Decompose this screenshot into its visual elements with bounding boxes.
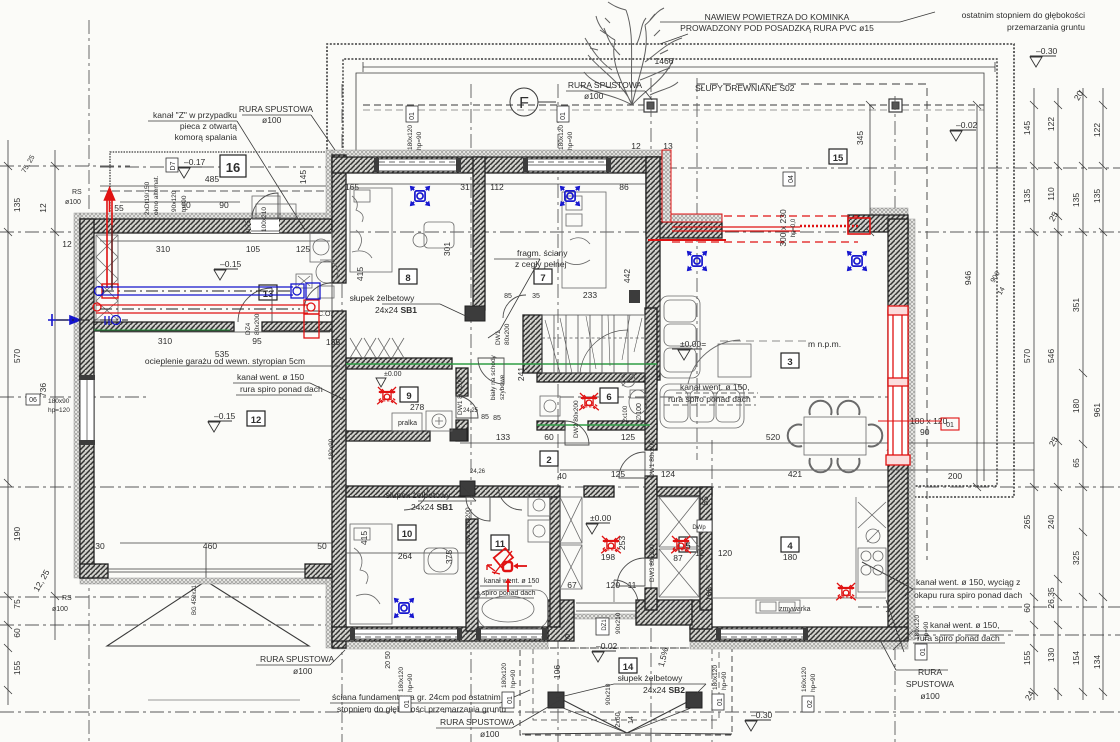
svg-text:112: 112 xyxy=(490,182,504,192)
svg-text:01: 01 xyxy=(409,112,416,120)
svg-text:35: 35 xyxy=(532,293,540,300)
svg-text:180x120: 180x120 xyxy=(914,615,921,640)
svg-text:słupek żelbetowy: słupek żelbetowy xyxy=(350,293,415,303)
svg-text:100x210: 100x210 xyxy=(261,207,268,232)
svg-text:–0.30: –0.30 xyxy=(1036,46,1058,56)
svg-text:165: 165 xyxy=(345,182,359,192)
svg-text:198: 198 xyxy=(601,552,615,562)
svg-text:180: 180 xyxy=(783,552,797,562)
svg-text:301: 301 xyxy=(442,242,452,256)
svg-text:ø100: ø100 xyxy=(262,115,282,125)
svg-text:421: 421 xyxy=(788,469,802,479)
svg-text:264: 264 xyxy=(398,551,412,561)
svg-text:180: 180 xyxy=(1071,399,1081,413)
svg-text:kanał went. ø 150: kanał went. ø 150 xyxy=(237,372,304,382)
svg-text:01: 01 xyxy=(920,648,927,656)
svg-text:145: 145 xyxy=(1022,121,1032,135)
svg-text:546: 546 xyxy=(1046,349,1056,363)
svg-text:fragm. ściany: fragm. ściany xyxy=(517,248,568,258)
svg-text:hp=90: hp=90 xyxy=(416,131,423,150)
svg-text:67: 67 xyxy=(567,580,577,590)
svg-text:20 50: 20 50 xyxy=(385,651,392,669)
svg-text:180x120: 180x120 xyxy=(398,667,405,692)
svg-text:3: 3 xyxy=(787,357,792,368)
svg-text:kanał went. ø 150, wyciąg z: kanał went. ø 150, wyciąg z xyxy=(916,577,1020,587)
svg-text:10: 10 xyxy=(402,529,413,540)
svg-text:75: 75 xyxy=(12,599,22,609)
svg-text:DW2 80x200: DW2 80x200 xyxy=(573,400,580,438)
svg-text:SŁUPY DREWNIANE S02: SŁUPY DREWNIANE S02 xyxy=(695,83,795,93)
svg-text:106: 106 xyxy=(552,665,562,679)
svg-text:65: 65 xyxy=(700,496,710,506)
svg-text:30: 30 xyxy=(95,541,105,551)
svg-text:460: 460 xyxy=(203,541,217,551)
svg-text:pieca z otwartą: pieca z otwartą xyxy=(180,121,237,131)
svg-text:01: 01 xyxy=(404,700,411,708)
svg-text:01: 01 xyxy=(507,696,514,704)
svg-text:180x120: 180x120 xyxy=(407,125,414,150)
svg-text:4: 4 xyxy=(787,541,793,552)
svg-text:241: 241 xyxy=(516,367,526,381)
svg-text:DW1: DW1 xyxy=(495,330,502,345)
svg-text:pralka: pralka xyxy=(398,420,417,427)
svg-text:961: 961 xyxy=(1092,403,1102,417)
svg-text:180x120: 180x120 xyxy=(501,663,508,688)
svg-text:95: 95 xyxy=(252,336,262,346)
svg-text:02: 02 xyxy=(807,700,814,708)
svg-text:85: 85 xyxy=(481,414,489,421)
svg-text:1466: 1466 xyxy=(655,56,674,66)
svg-text:40: 40 xyxy=(557,471,567,481)
svg-text:ø100: ø100 xyxy=(480,729,500,739)
svg-text:6: 6 xyxy=(606,392,611,403)
svg-text:8: 8 xyxy=(405,273,410,284)
svg-text:2x60: 2x60 xyxy=(615,712,622,727)
svg-text:kanał went. ø 150,: kanał went. ø 150, xyxy=(680,382,749,392)
svg-text:2xDt19/150: 2xDt19/150 xyxy=(144,181,151,215)
svg-text:słupek żelbetowy: słupek żelbetowy xyxy=(386,490,451,500)
svg-text:60: 60 xyxy=(544,432,554,442)
svg-text:570: 570 xyxy=(12,349,22,363)
svg-text:125: 125 xyxy=(296,244,310,254)
svg-text:hp=90: hp=90 xyxy=(810,673,817,692)
svg-text:60: 60 xyxy=(12,628,22,638)
svg-text:ocieplenie garażu od wewn. sty: ocieplenie garażu od wewn. styropian 5cm xyxy=(145,356,305,366)
svg-text:135: 135 xyxy=(1092,189,1102,203)
svg-text:415: 415 xyxy=(355,267,365,281)
svg-text:ø100: ø100 xyxy=(920,691,940,701)
svg-text:415: 415 xyxy=(359,531,369,545)
svg-text:135: 135 xyxy=(12,198,22,212)
svg-text:80x200: 80x200 xyxy=(254,313,261,335)
svg-text:2x100: 2x100 xyxy=(623,405,629,422)
svg-text:stopniem do głębokości przemar: stopniem do głębokości przemarzania grun… xyxy=(337,704,506,714)
svg-text:okapu rura spiro ponad dach: okapu rura spiro ponad dach xyxy=(914,590,1022,600)
svg-text:2: 2 xyxy=(546,455,551,466)
svg-text:300 x 230: 300 x 230 xyxy=(778,209,788,247)
svg-text:180x120: 180x120 xyxy=(558,125,565,150)
svg-text:14: 14 xyxy=(623,662,634,673)
svg-text:rura spiro ponad dach: rura spiro ponad dach xyxy=(240,384,323,394)
svg-text:0,75: 0,75 xyxy=(246,220,252,232)
svg-text:–0.15: –0.15 xyxy=(220,259,242,269)
svg-text:szybowe: szybowe xyxy=(499,374,506,400)
svg-text:RURA SPUSTOWA: RURA SPUSTOWA xyxy=(440,717,514,727)
svg-text:01: 01 xyxy=(946,422,954,429)
svg-text:DW3 80x200: DW3 80x200 xyxy=(649,544,656,582)
svg-text:hp=90: hp=90 xyxy=(510,669,517,688)
svg-text:04: 04 xyxy=(788,175,795,183)
svg-text:m n.p.m.: m n.p.m. xyxy=(808,339,841,349)
svg-text:87: 87 xyxy=(673,553,683,563)
svg-text:155: 155 xyxy=(12,661,22,675)
svg-text:14: 14 xyxy=(628,716,635,724)
svg-text:233: 233 xyxy=(583,290,597,300)
svg-text:DW1 80x200: DW1 80x200 xyxy=(649,440,656,478)
svg-text:NAWIEW POWIETRZA DO KOMINKA: NAWIEW POWIETRZA DO KOMINKA xyxy=(705,12,850,22)
svg-text:9: 9 xyxy=(406,391,411,402)
svg-text:12: 12 xyxy=(38,203,48,213)
svg-text:24x24 SB2: 24x24 SB2 xyxy=(643,685,685,695)
svg-text:135: 135 xyxy=(1071,193,1081,207)
svg-text:±0.00: ±0.00 xyxy=(384,371,402,378)
svg-text:01: 01 xyxy=(717,698,724,706)
svg-text:90: 90 xyxy=(219,200,229,210)
svg-text:–0.17: –0.17 xyxy=(184,157,206,167)
svg-text:325: 325 xyxy=(1071,551,1081,565)
svg-text:110: 110 xyxy=(1046,187,1056,201)
svg-text:310: 310 xyxy=(156,244,170,254)
svg-text:DWp: DWp xyxy=(692,525,706,531)
svg-text:135: 135 xyxy=(326,337,340,347)
svg-text:RURA SPUSTOWA: RURA SPUSTOWA xyxy=(239,104,313,114)
svg-text:125: 125 xyxy=(621,432,635,442)
svg-text:12: 12 xyxy=(62,239,72,249)
svg-text:65: 65 xyxy=(1071,458,1081,468)
svg-text:130: 130 xyxy=(1046,648,1056,662)
svg-text:124: 124 xyxy=(661,469,675,479)
svg-text:ø100: ø100 xyxy=(293,666,313,676)
svg-text:122: 122 xyxy=(1092,123,1102,137)
svg-text:240: 240 xyxy=(1046,515,1056,529)
svg-text:60: 60 xyxy=(1022,603,1032,613)
svg-text:125: 125 xyxy=(611,469,625,479)
svg-text:–0.30: –0.30 xyxy=(751,710,773,720)
svg-text:kanał went. ø 150,: kanał went. ø 150, xyxy=(930,620,999,630)
svg-text:190: 190 xyxy=(12,527,22,541)
svg-text:±0.00=: ±0.00= xyxy=(680,339,706,349)
svg-text:hp=120: hp=120 xyxy=(48,407,70,414)
svg-text:85: 85 xyxy=(504,293,512,300)
svg-text:570: 570 xyxy=(1022,349,1032,363)
svg-text:–0.02: –0.02 xyxy=(596,641,618,651)
svg-text:90x210: 90x210 xyxy=(615,612,622,634)
svg-text:24,26: 24,26 xyxy=(470,469,486,475)
svg-text:–0.02: –0.02 xyxy=(956,120,978,130)
svg-text:485: 485 xyxy=(205,174,219,184)
svg-text:85: 85 xyxy=(493,415,501,422)
svg-text:278: 278 xyxy=(410,402,424,412)
svg-text:120: 120 xyxy=(606,580,620,590)
svg-text:135: 135 xyxy=(1022,189,1032,203)
svg-text:D7: D7 xyxy=(170,161,177,170)
svg-text:155: 155 xyxy=(1022,651,1032,665)
svg-text:rura spiro ponad dach: rura spiro ponad dach xyxy=(668,394,751,404)
svg-text:hp=90: hp=90 xyxy=(923,621,930,640)
svg-text:26,35: 26,35 xyxy=(1046,587,1056,609)
svg-text:DZ4: DZ4 xyxy=(245,322,252,335)
svg-text:180x90: 180x90 xyxy=(328,438,335,460)
svg-text:90x210: 90x210 xyxy=(605,683,612,705)
svg-text:DW2 80x200: DW2 80x200 xyxy=(465,507,472,545)
svg-text:7: 7 xyxy=(540,273,545,284)
svg-text:RURA: RURA xyxy=(918,667,942,677)
svg-text:DW1 80x200: DW1 80x200 xyxy=(457,377,464,415)
svg-text:C.O.: C.O. xyxy=(318,311,332,318)
svg-text:∅100: ∅100 xyxy=(636,403,643,421)
svg-text:z cegły pełnej: z cegły pełnej xyxy=(515,259,567,269)
svg-text:ø100: ø100 xyxy=(52,606,68,613)
svg-text:122: 122 xyxy=(1046,117,1056,131)
svg-text:24,25: 24,25 xyxy=(463,408,479,414)
svg-text:06: 06 xyxy=(29,397,37,404)
svg-text:RS: RS xyxy=(62,595,72,602)
svg-text:12: 12 xyxy=(251,415,262,426)
svg-text:hp=90: hp=90 xyxy=(721,671,728,690)
svg-text:RS: RS xyxy=(72,189,82,196)
svg-text:120: 120 xyxy=(718,548,732,558)
svg-text:351: 351 xyxy=(1071,298,1081,312)
svg-text:60: 60 xyxy=(565,634,572,642)
svg-text:133: 133 xyxy=(496,432,510,442)
svg-text:hp=0,0: hp=0,0 xyxy=(791,218,797,237)
svg-text:86: 86 xyxy=(619,182,629,192)
svg-text:55: 55 xyxy=(114,203,124,213)
svg-text:L: L xyxy=(706,565,710,572)
svg-text:168: 168 xyxy=(704,587,714,601)
svg-text:180x90: 180x90 xyxy=(48,398,70,405)
svg-text:345: 345 xyxy=(855,131,865,145)
svg-text:hp=90: hp=90 xyxy=(567,131,574,150)
svg-text:hp=90: hp=90 xyxy=(407,673,414,692)
svg-text:ø100: ø100 xyxy=(65,199,81,206)
svg-text:komorą spalania: komorą spalania xyxy=(175,132,238,142)
svg-text:kanał went. ø 150: kanał went. ø 150 xyxy=(484,578,539,585)
svg-text:105: 105 xyxy=(246,244,260,254)
svg-text:01: 01 xyxy=(560,112,567,120)
svg-text:±0.00: ±0.00 xyxy=(590,513,611,523)
svg-text:31: 31 xyxy=(460,182,470,192)
svg-text:24x24 SB1: 24x24 SB1 xyxy=(375,305,417,315)
svg-text:90: 90 xyxy=(920,427,930,437)
svg-text:160x120: 160x120 xyxy=(801,667,808,692)
svg-text:90x120: 90x120 xyxy=(171,190,178,212)
svg-text:200: 200 xyxy=(948,471,962,481)
svg-text:okno alternat.: okno alternat. xyxy=(153,175,160,215)
svg-text:RURA SPUSTOWA: RURA SPUSTOWA xyxy=(568,80,642,90)
svg-text:442: 442 xyxy=(622,269,632,283)
svg-text:RURA SPUSTOWA: RURA SPUSTOWA xyxy=(260,654,334,664)
svg-text:SPUSTOWA: SPUSTOWA xyxy=(906,679,955,689)
svg-text:kanał "Z" w przypadku: kanał "Z" w przypadku xyxy=(153,110,237,120)
svg-text:DZ1: DZ1 xyxy=(602,619,608,631)
svg-text:50: 50 xyxy=(317,541,327,551)
svg-text:946: 946 xyxy=(963,271,973,285)
svg-text:180x120: 180x120 xyxy=(712,665,719,690)
svg-text:24x24 SB1: 24x24 SB1 xyxy=(411,502,453,512)
svg-text:słupek żelbetowy: słupek żelbetowy xyxy=(618,673,683,683)
svg-text:16: 16 xyxy=(226,160,240,175)
svg-text:F: F xyxy=(519,95,529,112)
svg-text:ø100: ø100 xyxy=(584,91,604,101)
svg-text:ściana fundamentowa gr. 24cm p: ściana fundamentowa gr. 24cm pod ostatni… xyxy=(332,692,501,702)
svg-text:134: 134 xyxy=(1092,655,1102,669)
svg-text:80x200: 80x200 xyxy=(504,323,511,345)
svg-text:przemarzania gruntu: przemarzania gruntu xyxy=(1007,22,1085,32)
svg-text:–0.15: –0.15 xyxy=(214,411,236,421)
svg-text:biały na schody: biały na schody xyxy=(490,354,497,400)
svg-text:ostatnim stopniem do głębokośc: ostatnim stopniem do głębokości xyxy=(962,10,1085,20)
svg-text:12: 12 xyxy=(631,141,641,151)
svg-text:15: 15 xyxy=(833,153,844,164)
svg-text:PROWADZONY POD POSADZKĄ RURA P: PROWADZONY POD POSADZKĄ RURA PVC ø15 xyxy=(680,23,874,33)
svg-text:265: 265 xyxy=(1022,515,1032,529)
svg-text:BG 450x21: BG 450x21 xyxy=(192,584,198,615)
svg-text:tp=90: tp=90 xyxy=(181,195,188,212)
svg-text:145: 145 xyxy=(298,170,308,184)
svg-text:310: 310 xyxy=(158,336,172,346)
svg-text:154: 154 xyxy=(1071,651,1081,665)
svg-text:520: 520 xyxy=(766,432,780,442)
